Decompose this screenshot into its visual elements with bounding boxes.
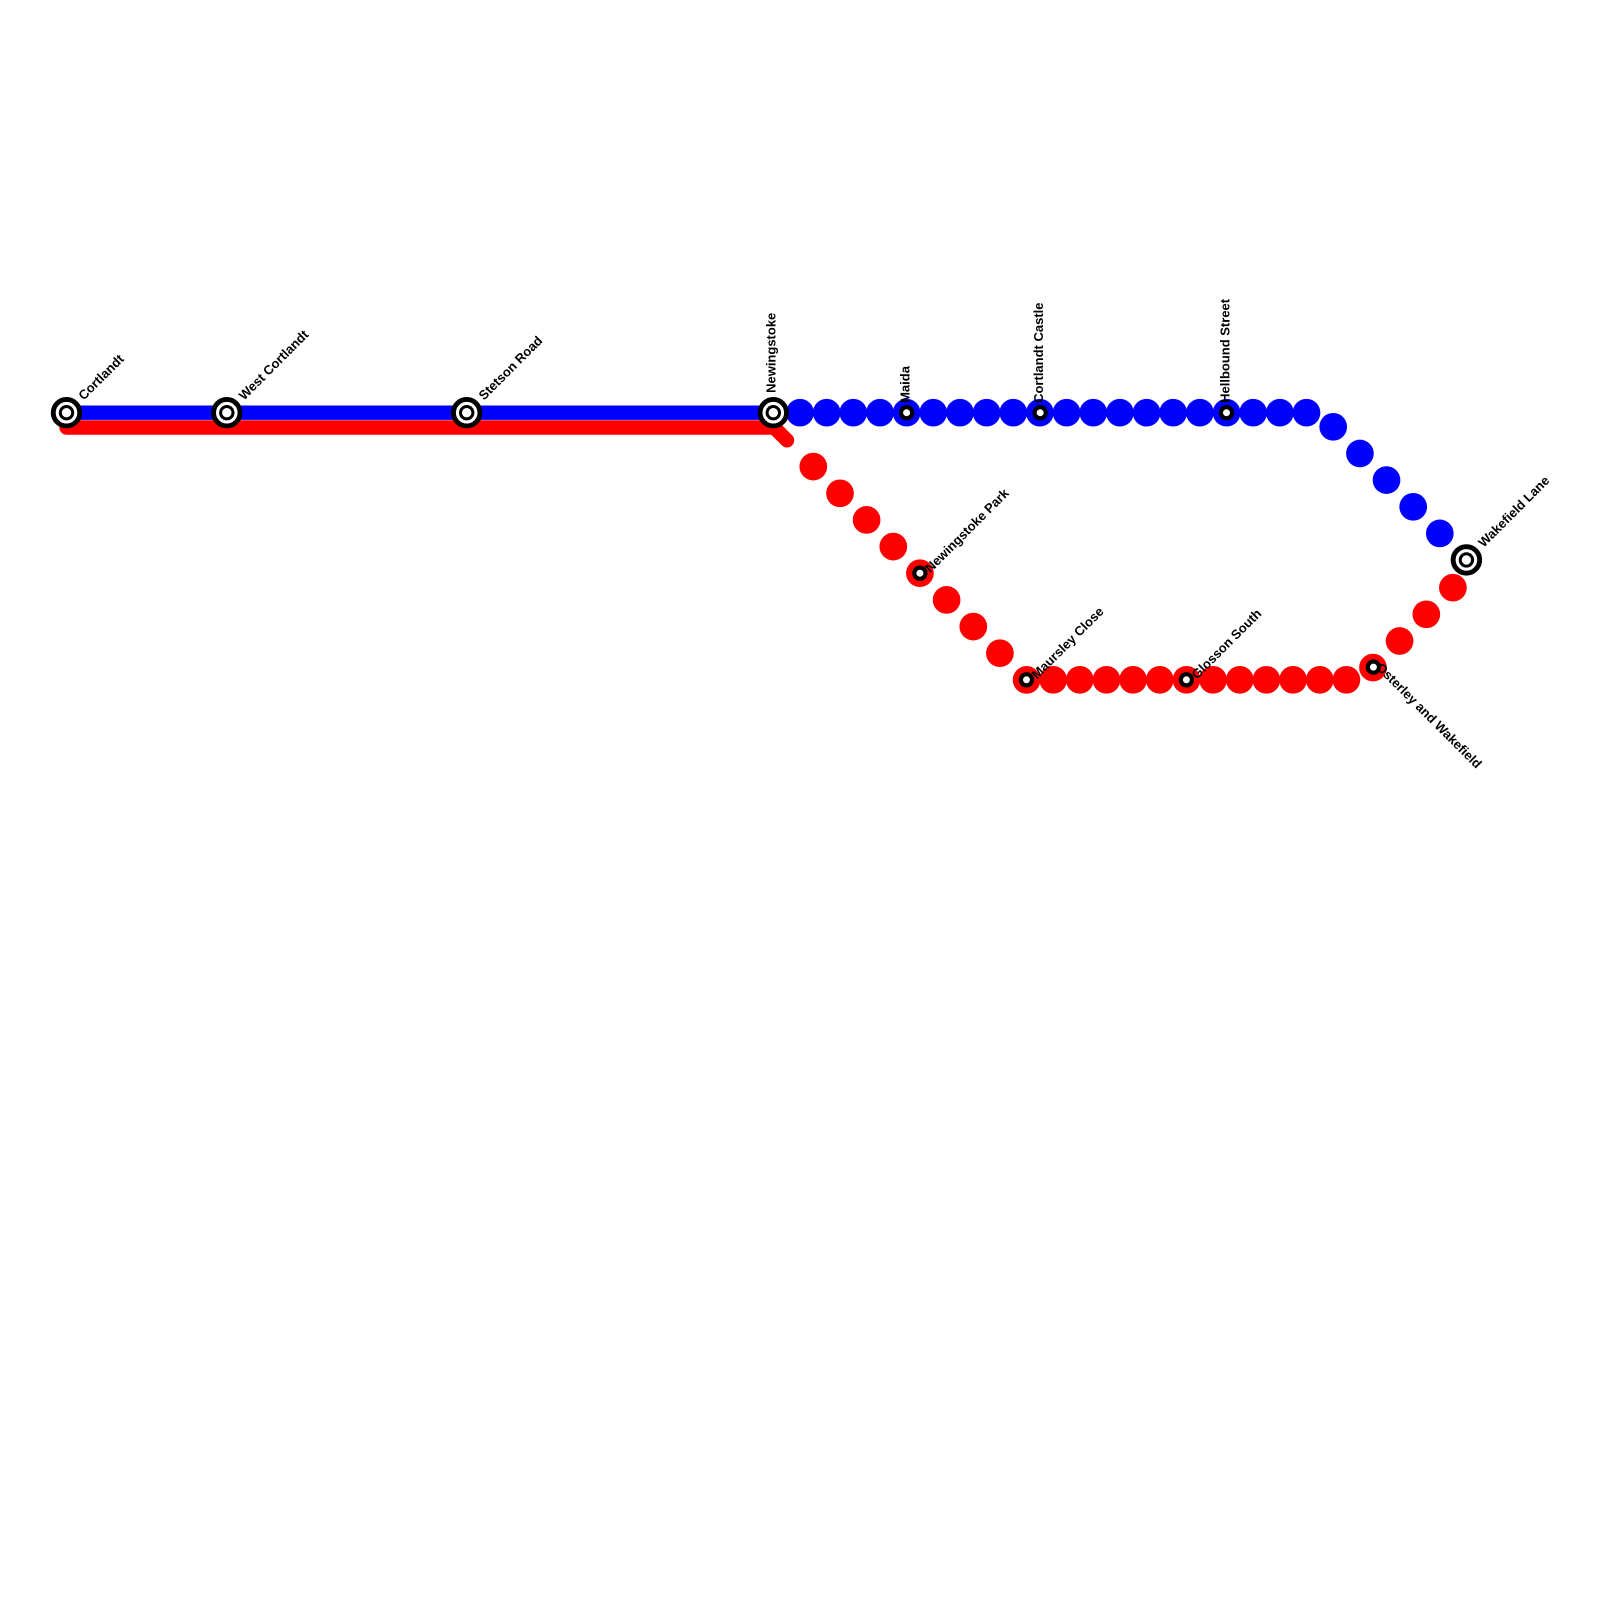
station Maursley Close marker (1021, 674, 1032, 685)
svg-text:Cortlandt Castle: Cortlandt Castle (1031, 302, 1046, 402)
svg-text:Wakefield Lane: Wakefield Lane (1475, 473, 1552, 550)
svg-text:Newingstoke: Newingstoke (764, 313, 779, 393)
svg-text:Stetson Road: Stetson Road (476, 333, 546, 403)
svg-text:West Cortlandt: West Cortlandt (236, 327, 312, 403)
svg-text:Cortlandt: Cortlandt (75, 351, 127, 403)
station Maida marker (901, 407, 912, 418)
svg-text:Maida: Maida (897, 365, 912, 403)
blue line solid Cortlandt-Newingstoke (67, 406, 778, 420)
svg-text:Osterley and Wakefield: Osterley and Wakefield (1373, 660, 1484, 771)
svg-text:Glosson South: Glosson South (1188, 606, 1264, 682)
interchange Cortlandt marker (53, 399, 80, 426)
interchange Stetson Road marker (453, 399, 480, 426)
station Osterley and Wakefield marker (1368, 662, 1379, 673)
svg-text:Hellbound Street: Hellbound Street (1217, 298, 1232, 403)
station Hellbound Street marker (1221, 407, 1232, 418)
interchange Wakefield Lane marker (1453, 547, 1480, 574)
interchange Newingstoke marker (760, 399, 787, 426)
red line dotted section dots (799, 453, 1466, 694)
station Cortlandt Castle marker (1035, 407, 1046, 418)
blue line dotted section dots (786, 399, 1480, 574)
interchange West Cortlandt marker (214, 399, 241, 426)
station Newingstoke Park marker (914, 568, 925, 579)
svg-text:Maursley Close: Maursley Close (1029, 604, 1107, 682)
red line solid Cortlandt-Newingstoke with diagonal stub (67, 428, 788, 441)
svg-text:Newingstoke Park: Newingstoke Park (922, 485, 1012, 575)
station Glosson South marker (1181, 674, 1192, 685)
